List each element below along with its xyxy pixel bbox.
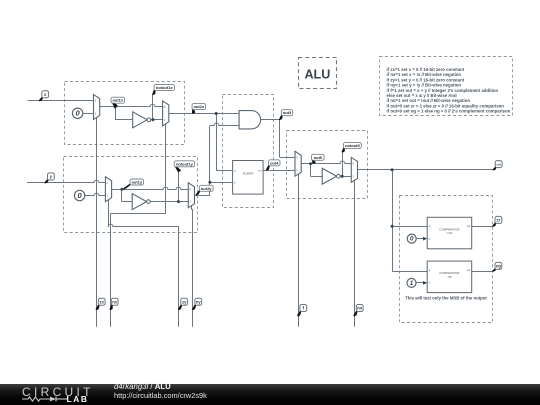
svg-text:notout1y: notout1y bbox=[176, 161, 194, 166]
svg-text:out2y: out2y bbox=[201, 186, 212, 191]
svg-text:out1x: out1x bbox=[112, 98, 123, 103]
svg-text:<0b: <0b bbox=[447, 275, 452, 279]
svg-text:zx: zx bbox=[99, 299, 104, 304]
svg-text:out4: out4 bbox=[270, 160, 279, 165]
svg-text:COMPARATOR: COMPARATOR bbox=[439, 271, 459, 275]
svg-text:zy: zy bbox=[182, 299, 187, 304]
svg-text:out: out bbox=[258, 169, 262, 172]
svg-text:out: out bbox=[496, 162, 501, 166]
svg-text:zr: zr bbox=[497, 217, 501, 222]
svg-text:out: out bbox=[467, 269, 471, 272]
svg-text:if out<0 set ng = 1 else ng =: if out<0 set ng = 1 else ng = 0 // 2's c… bbox=[387, 109, 511, 114]
svg-text:ny: ny bbox=[196, 299, 202, 304]
svg-text:nx: nx bbox=[112, 299, 118, 304]
svg-text:no: no bbox=[357, 306, 363, 311]
svg-text:This will test only the MSB of: This will test only the MSB of the outpu… bbox=[405, 295, 487, 300]
svg-text:LAB: LAB bbox=[67, 394, 89, 404]
svg-text:notout5: notout5 bbox=[345, 143, 360, 148]
svg-text:out2x: out2x bbox=[193, 104, 204, 109]
svg-text:notout1x: notout1x bbox=[156, 85, 174, 90]
svg-text:==0b: ==0b bbox=[446, 231, 452, 235]
svg-text:out3: out3 bbox=[283, 110, 292, 115]
svg-text:ADDER: ADDER bbox=[242, 172, 254, 176]
svg-text:ng: ng bbox=[496, 263, 502, 268]
svg-text:out: out bbox=[467, 225, 471, 228]
svg-text:1: 1 bbox=[410, 280, 414, 287]
svg-text:0: 0 bbox=[410, 236, 414, 243]
svg-text:out1y: out1y bbox=[131, 179, 142, 184]
svg-text:ALU: ALU bbox=[304, 68, 330, 82]
svg-text:out5: out5 bbox=[314, 155, 323, 160]
svg-text:COMPARATOR: COMPARATOR bbox=[439, 227, 459, 231]
